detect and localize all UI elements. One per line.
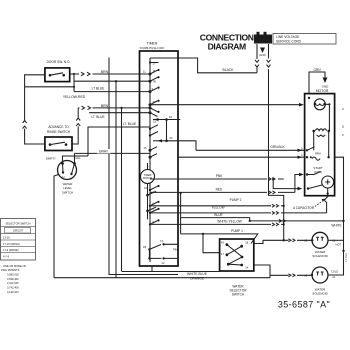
svg-text:3,742,408: 3,742,408 (7, 286, 19, 290)
wire to motor 3 (178, 153, 330, 160)
svg-text:17: 17 (221, 252, 224, 256)
svg-text:PNK: PNK (216, 174, 223, 178)
timer contact row 104 terminal 27 (149, 100, 160, 107)
svg-text:1B: 1B (143, 245, 146, 249)
motor M1 (305, 89, 335, 196)
timer contact bottom terminal 12 (148, 257, 178, 265)
svg-text:SERVICE CORD: SERVICE CORD (276, 40, 302, 44)
wire PNK timer to motor start contact (150, 173, 304, 181)
motor start switch (306, 166, 323, 176)
selector switch table (1, 219, 36, 261)
svg-text:PINK: PINK (173, 248, 179, 252)
wire motor 3 to solenoid returns WHITE (328, 157, 345, 275)
svg-text:SOLENOID: SOLENOID (312, 254, 328, 258)
svg-text:FULL: FULL (74, 156, 81, 160)
wire YELLOW pump 2 (150, 198, 285, 209)
motor start winding (322, 176, 334, 188)
motor ground GRN (308, 68, 329, 99)
svg-text:SELECTOR SWITCH: SELECTOR SWITCH (6, 221, 31, 225)
wire lt-blue row2 (74, 80, 150, 82)
timer internal bus (149, 58, 151, 262)
ground symbol at plug (259, 48, 267, 57)
svg-text:CIRCUIT: CIRCUIT (13, 229, 24, 233)
title CONNECTION DIAGRAM (200, 32, 254, 51)
service cord label box (273, 34, 336, 45)
svg-text:YELLOW: YELLOW (211, 205, 224, 209)
wire WHITE-YELLOW (150, 220, 285, 226)
svg-text:START: START (313, 166, 322, 170)
svg-text:FWG PATENTS: FWG PATENTS (1, 268, 20, 272)
wire BRN door to timer (70, 70, 150, 76)
svg-text:LT BLUE: LT BLUE (92, 86, 105, 90)
svg-text:N: N (341, 108, 345, 110)
wire LT BLUE row3 (74, 86, 150, 91)
wire PUMP 1 loop (180, 192, 258, 253)
svg-text:12: 12 (162, 261, 165, 265)
svg-text:GND: GND (322, 85, 330, 89)
svg-text:LT. BLUE: LT. BLUE (123, 122, 136, 126)
svg-text:17-9 (RINSE): 17-9 (RINSE) (3, 248, 19, 252)
svg-text:HOT: HOT (336, 243, 342, 247)
svg-text:63: 63 (169, 115, 172, 119)
wire hot solenoid feed (254, 239, 312, 244)
svg-text:5: 5 (301, 146, 303, 150)
wire PNK branch to motor bottom (272, 178, 302, 191)
svg-text:2,412,045: 2,412,045 (7, 281, 19, 285)
svg-text:YELLOW-RED: YELLOW-RED (63, 95, 86, 99)
svg-text:14: 14 (245, 265, 248, 269)
timer contact row 150 terminal 15 (144, 146, 158, 152)
svg-text:4-7-9: 4-7-9 (3, 254, 10, 258)
svg-text:DOOR SW. N.O.: DOOR SW. N.O. (47, 60, 71, 64)
wire water level switch to bottom bus (54, 175, 59, 278)
svg-text:ADVANCE TO: ADVANCE TO (48, 125, 69, 129)
bottom bus wire (54, 277, 270, 279)
wire rinse switch riser (72, 108, 78, 144)
svg-text:GRN-BLK: GRN-BLK (270, 145, 285, 149)
svg-text:WHITE-YELLOW: WHITE-YELLOW (217, 220, 242, 224)
svg-text:PUMP 1: PUMP 1 (231, 229, 243, 233)
svg-text:SOLENOID: SOLENOID (312, 292, 328, 296)
line cord plug P1 (254, 32, 272, 44)
wire door switch left leg (25, 75, 45, 144)
wire BLUE (150, 200, 327, 217)
wire LT. BLUE from water level switch (63, 122, 151, 163)
svg-text:LINE VOLTAGE: LINE VOLTAGE (276, 35, 300, 39)
motor thermal protector (314, 99, 330, 131)
svg-text:43: 43 (221, 241, 224, 245)
long riser wire X2 (120, 107, 122, 271)
timer box T1 (140, 42, 179, 266)
svg-text:BRN: BRN (101, 70, 109, 74)
svg-text:3: 3 (152, 87, 154, 91)
timer contact row 91 terminal 7B (149, 79, 160, 93)
wire GRAY from water level switch (75, 149, 151, 163)
capacitor callout (293, 199, 325, 210)
wire RED (150, 175, 299, 194)
svg-text:ORANGE: ORANGE (190, 277, 204, 281)
patents note (1, 264, 26, 294)
wire yellow-red leg to connector column (25, 86, 74, 88)
long riser wire X1 (115, 80, 117, 278)
svg-text:COLD: COLD (331, 269, 338, 273)
timer contact bottom terminal 7A PINK (143, 239, 179, 258)
console box outline (109, 58, 178, 275)
svg-text:3: 3 (301, 153, 303, 157)
svg-text:EMPTY: EMPTY (46, 157, 56, 161)
timer contact row 108 (149, 106, 160, 113)
wire GRN-BLK to motor 5 (196, 145, 321, 155)
timer contact row 224 terminal 9 (149, 219, 160, 225)
cold water solenoid L2 (311, 267, 339, 296)
svg-text:35-6587 "A": 35-6587 "A" (278, 300, 330, 310)
timer terminal 62 (149, 125, 196, 151)
motor winding leads (312, 129, 330, 157)
timer contact row 157 (149, 154, 158, 159)
svg-text:A CAPACITOR: A CAPACITOR (293, 206, 315, 210)
timer contact row 74 terminal 11 (143, 61, 160, 75)
timer contact row 179 terminal 10 (144, 184, 160, 194)
svg-text:7B: 7B (153, 79, 156, 83)
timer motor M2 (141, 163, 157, 219)
svg-text:ONE OR MORE OF: ONE OR MORE OF (3, 264, 26, 268)
svg-text:KNOB-PUSH OFF: KNOB-PUSH OFF (140, 46, 165, 50)
svg-text:RINSE SWITCH: RINSE SWITCH (47, 130, 71, 134)
wire BLACK from timer to plug (150, 44, 259, 73)
svg-text:N: N (341, 134, 345, 136)
connector J2 vertical chevrons (76, 118, 80, 126)
svg-text:13-16: 13-16 (3, 235, 10, 239)
timer contact row 213 terminal 2 (149, 208, 160, 214)
svg-text:LT. BLUE: LT. BLUE (91, 115, 104, 119)
wire WHITE-BLUE bottom run (122, 266, 220, 281)
svg-text:LT-BLU: LT-BLU (344, 253, 348, 262)
water selector switch S4 (220, 239, 254, 297)
svg-text:18: 18 (245, 241, 248, 245)
svg-text:62: 62 (170, 136, 173, 140)
svg-text:GRAY: GRAY (99, 150, 109, 154)
svg-text:15: 15 (144, 146, 147, 150)
svg-text:17-16 (WASH): 17-16 (WASH) (3, 242, 20, 246)
timer contact row 81 terminal 16 (149, 69, 160, 83)
wire WHITE neutral drop (267, 44, 284, 240)
connector J1 vertical chevrons (23, 119, 27, 132)
rinse switch S2 (45, 125, 72, 150)
timer contact row 112 terminal 15 (149, 111, 158, 123)
svg-text:BLACK: BLACK (222, 68, 234, 72)
water level switch S3 (46, 156, 81, 194)
svg-text:DIAGRAM: DIAGRAM (208, 41, 246, 51)
svg-text:3,580,018: 3,580,018 (7, 273, 19, 277)
wire BRN rinse to timer (78, 104, 150, 110)
motor bottom terminal (307, 185, 329, 200)
svg-text:7A: 7A (160, 239, 163, 243)
svg-text:11: 11 (143, 70, 146, 74)
svg-text:GND: GND (259, 53, 267, 57)
wire timer to motor protector (150, 103, 304, 107)
svg-text:M: M (341, 125, 345, 128)
svg-text:10: 10 (144, 186, 147, 190)
wire LT. BLUE row5 (89, 113, 150, 119)
timer terminal 63 (153, 115, 180, 141)
svg-text:4,149,423: 4,149,423 (7, 290, 19, 294)
svg-text:MOTOR: MOTOR (316, 89, 329, 93)
stray scan marks right margin (341, 108, 348, 262)
svg-text:RED: RED (216, 188, 223, 192)
wire white return row (181, 218, 344, 223)
wire cold solenoid feed (254, 265, 312, 278)
svg-text:GRN: GRN (313, 68, 321, 72)
svg-text:SWITCH: SWITCH (232, 293, 245, 297)
svg-text:BRN: BRN (101, 104, 109, 108)
node branch left (73, 74, 75, 92)
timer contact row 203 terminal 6 (149, 201, 160, 207)
svg-text:SWITCH: SWITCH (62, 190, 73, 194)
door switch S1 (45, 60, 71, 82)
svg-text:RPM: RPM (315, 152, 321, 155)
svg-text:WHITE: WHITE (331, 223, 341, 227)
hot water solenoid L1 (311, 232, 345, 258)
svg-text:3,599,460: 3,599,460 (7, 277, 19, 281)
svg-text:PUMP 2: PUMP 2 (230, 198, 242, 202)
svg-text:WHITE-BLUE: WHITE-BLUE (187, 272, 207, 276)
svg-text:BLUE: BLUE (214, 213, 222, 217)
